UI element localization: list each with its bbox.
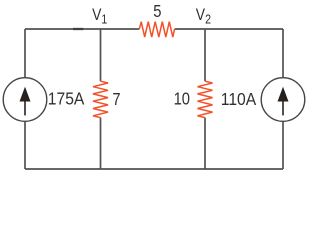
current source I2 circle: [261, 78, 305, 122]
wire V2 branch lower: [204, 118, 206, 169]
svg-text:5: 5: [153, 1, 161, 21]
resistor R5 (horizontal, 5 ohm): [139, 22, 174, 37]
svg-text:V1: V1: [92, 6, 108, 27]
wire V1 branch lower: [100, 118, 102, 169]
svg-text:110A: 110A: [221, 89, 257, 109]
wire overlap dash on top rail: [73, 28, 83, 30]
svg-text:V2: V2: [196, 6, 211, 27]
current source I1 circle: [3, 78, 47, 122]
svg-text:7: 7: [112, 89, 120, 109]
wire top rail left segment: [25, 28, 139, 30]
resistor R10 (vertical, 10 ohm): [198, 81, 213, 117]
resistor R7 (vertical, 7 ohm): [93, 81, 108, 117]
wire V1 branch upper: [100, 29, 102, 81]
wire right branch upper: [282, 29, 284, 78]
svg-text:175A: 175A: [48, 89, 85, 109]
current source I1 arrow: [20, 87, 31, 116]
wire left branch upper: [24, 29, 26, 78]
wire bottom rail: [25, 168, 283, 170]
wire top rail right segment: [175, 28, 283, 30]
current source I2 arrow: [278, 87, 289, 116]
svg-text:10: 10: [174, 89, 190, 109]
wire right branch lower: [282, 121, 284, 169]
wire V2 branch upper: [204, 29, 206, 81]
wire left branch lower: [24, 121, 26, 169]
